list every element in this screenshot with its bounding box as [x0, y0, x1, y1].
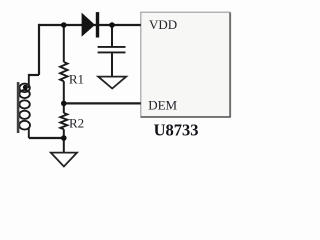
- capacitor C1: [98, 47, 126, 53]
- svg-text:R2: R2: [69, 115, 84, 130]
- wire DEM line: [64, 102, 141, 104]
- svg-text:VDD: VDD: [149, 17, 177, 32]
- resistor R1: [60, 62, 67, 81]
- svg-text:DEM: DEM: [148, 97, 177, 112]
- wire ground stem bottom: [63, 138, 65, 153]
- junction node B (rail / C1): [109, 22, 115, 28]
- wire jog to coil: [29, 74, 39, 76]
- wire left vertical: [38, 24, 40, 75]
- wire capacitor stem upper: [111, 25, 113, 46]
- wire R branch upper: [63, 24, 65, 62]
- junction node A (rail / R1): [61, 22, 67, 28]
- wire R2 bottom: [63, 129, 65, 138]
- inductor L1 coil: [19, 74, 30, 138]
- wire bottom rail: [29, 137, 64, 139]
- IC box U8733: [141, 12, 231, 117]
- resistor R2: [60, 113, 67, 129]
- wire between R1 and R2: [63, 81, 65, 113]
- junction node C (R1 / R2 / DEM): [61, 101, 67, 107]
- wire capacitor stem lower: [111, 53, 113, 76]
- ground (capacitor): [98, 77, 126, 89]
- svg-text:R1: R1: [69, 71, 84, 86]
- junction node D (R2 / coil / ground): [61, 135, 67, 141]
- transformer core bar: [17, 82, 20, 133]
- diode D1: [82, 12, 100, 37]
- ground (main): [51, 153, 77, 167]
- svg-text:U8733: U8733: [154, 121, 199, 140]
- wire top rail: [38, 24, 141, 26]
- polarity dot: [23, 85, 28, 90]
